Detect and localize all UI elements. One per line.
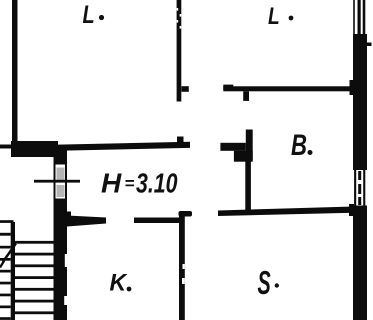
stair treads left flight <box>0 233 11 320</box>
vertical hall wall (stair side) <box>54 150 68 320</box>
small bump at left end of B top wall <box>223 85 233 90</box>
right outer wall upper solid part <box>353 34 367 170</box>
svg-text:=: = <box>125 174 135 193</box>
thin wall stub to image left edge <box>0 145 12 149</box>
middle window in right wall <box>354 170 365 206</box>
svg-text:L: L <box>268 2 280 30</box>
junction bumps <box>350 80 354 95</box>
left outer wall of top-left room <box>12 0 18 145</box>
leader line for H=3.10 <box>34 180 80 183</box>
svg-text:3.10: 3.10 <box>136 168 178 199</box>
K room top wall right segment <box>134 218 183 224</box>
svg-text:B: B <box>291 128 307 162</box>
K room top wall left segment <box>67 216 106 227</box>
door jamb tick below B top wall <box>243 91 249 101</box>
label H = 3.10 <box>101 168 178 199</box>
junction notch above K wall <box>67 212 71 218</box>
svg-text:H: H <box>101 168 122 199</box>
svg-text:L: L <box>83 1 95 29</box>
thick corner of hall wall <box>11 141 58 157</box>
stair treads right flight <box>15 241 54 314</box>
top window in right wall <box>353 0 365 35</box>
svg-text:S: S <box>258 264 271 302</box>
middle divider wall between the two L rooms (ragged at top) <box>177 0 182 102</box>
staircase left stringer <box>11 222 15 320</box>
tick pointing right from middle wall <box>182 86 189 92</box>
stair direction diagonal <box>0 261 4 268</box>
entrance door opening <box>56 165 66 199</box>
svg-text:K: K <box>110 269 128 297</box>
top wall of B room <box>223 86 353 91</box>
K/S divider wall <box>179 215 185 320</box>
thin left wall of B room <box>245 160 251 213</box>
bottom wall of top-left room <box>58 142 190 151</box>
right outer wall lower solid part <box>353 206 367 320</box>
jamb above K/S divider <box>179 211 193 217</box>
B room door jamb block <box>220 130 252 162</box>
top wall of S room <box>218 207 354 217</box>
up tick at end of bottom wall (door jamb) <box>177 137 184 144</box>
stair top tread <box>0 220 14 223</box>
